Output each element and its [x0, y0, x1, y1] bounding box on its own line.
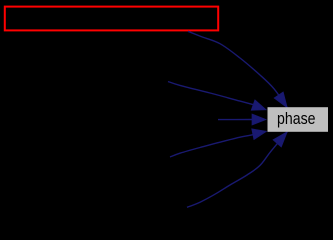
- edge 1: red node -> phase (top): [188, 31, 287, 108]
- node: phase: [268, 107, 329, 132]
- node: highlighted caller (red box, label hidden on black): [5, 7, 218, 31]
- edge 5 -> phase (bottom): [187, 132, 287, 208]
- edge 4 -> phase (lower left): [170, 129, 267, 157]
- edge 2 -> phase (upper left): [168, 82, 266, 111]
- svg-text:phase: phase: [277, 110, 316, 128]
- edge 3 -> phase (horizontal): [218, 114, 266, 125]
